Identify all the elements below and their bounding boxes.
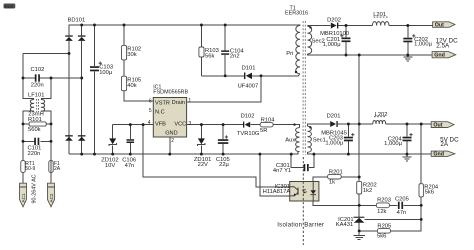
- svg-text:Gnd: Gnd: [433, 152, 444, 158]
- svg-text:90-264V AC: 90-264V AC: [31, 174, 37, 203]
- svg-text:C102: C102: [31, 67, 45, 73]
- svg-text:56k: 56k: [205, 53, 214, 59]
- svg-text:R104: R104: [261, 117, 276, 123]
- svg-text:22µ: 22µ: [219, 162, 229, 168]
- svg-text:C205: C205: [395, 196, 409, 202]
- svg-text:VFB: VFB: [155, 121, 166, 127]
- svg-text:1,000µ: 1,000µ: [414, 41, 433, 47]
- svg-text:5: 5: [149, 108, 152, 114]
- svg-text:Isolation Barrier: Isolation Barrier: [277, 223, 324, 229]
- svg-text:R101: R101: [28, 117, 42, 123]
- svg-text:D201: D201: [327, 114, 341, 120]
- svg-text:KA431: KA431: [336, 222, 353, 228]
- svg-text:Gnd: Gnd: [434, 53, 445, 59]
- svg-text:47n: 47n: [397, 210, 407, 216]
- svg-text:4: 4: [148, 120, 151, 126]
- svg-text:VSTR: VSTR: [155, 101, 170, 107]
- svg-text:BD101: BD101: [68, 18, 86, 24]
- svg-text:TVR10G: TVR10G: [237, 131, 260, 137]
- svg-text:6: 6: [149, 99, 152, 105]
- svg-text:L202: L202: [375, 112, 388, 118]
- svg-text:Sec1: Sec1: [313, 138, 326, 144]
- svg-text:EER3016: EER3016: [285, 10, 308, 16]
- svg-text:Aux: Aux: [285, 138, 295, 144]
- svg-text:2: 2: [171, 138, 174, 144]
- svg-text:N.C: N.C: [155, 109, 165, 115]
- svg-text:2n2: 2n2: [230, 54, 240, 60]
- svg-text:GND: GND: [165, 130, 177, 136]
- svg-text:100µ: 100µ: [99, 70, 113, 76]
- svg-text:1: 1: [188, 98, 191, 104]
- svg-text:D101: D101: [242, 66, 256, 72]
- svg-text:2A: 2A: [54, 166, 61, 172]
- svg-text:40k: 40k: [127, 83, 136, 89]
- svg-text:D202: D202: [327, 18, 341, 24]
- svg-text:H11A817A: H11A817A: [263, 189, 291, 195]
- svg-text:5k6: 5k6: [377, 234, 386, 240]
- svg-text:AC2: AC2: [49, 193, 54, 202]
- svg-text:Pri: Pri: [286, 51, 293, 57]
- svg-text:50-9: 50-9: [25, 166, 35, 172]
- svg-text:L201: L201: [373, 12, 386, 18]
- svg-text:VCC: VCC: [174, 122, 186, 128]
- svg-text:1,000µ: 1,000µ: [323, 42, 342, 48]
- svg-text:3: 3: [188, 121, 191, 127]
- svg-text:UF4007: UF4007: [238, 84, 259, 90]
- svg-text:30k: 30k: [127, 52, 136, 58]
- svg-text:560k: 560k: [28, 127, 41, 133]
- svg-text:220n: 220n: [28, 151, 41, 157]
- svg-text:12k: 12k: [377, 209, 386, 215]
- svg-text:R205: R205: [377, 223, 391, 229]
- svg-text:5R: 5R: [260, 128, 267, 134]
- svg-text:D102: D102: [241, 114, 255, 120]
- svg-text:R203: R203: [377, 197, 391, 203]
- svg-text:EUS: EUS: [5, 4, 14, 9]
- svg-text:Out: Out: [433, 123, 442, 129]
- svg-text:10V: 10V: [105, 163, 115, 169]
- svg-text:2.5A: 2.5A: [436, 43, 450, 50]
- svg-text:1k: 1k: [329, 180, 335, 186]
- svg-text:AC1: AC1: [21, 193, 26, 202]
- svg-text:FSDM0565RB: FSDM0565RB: [153, 90, 188, 96]
- svg-text:1,000µ: 1,000µ: [325, 140, 344, 146]
- svg-text:5k6: 5k6: [425, 189, 434, 195]
- svg-text:1k2: 1k2: [363, 188, 372, 194]
- svg-text:Out: Out: [435, 23, 444, 29]
- svg-text:Drain: Drain: [172, 100, 185, 106]
- svg-text:47n: 47n: [125, 163, 135, 169]
- svg-text:2A: 2A: [440, 141, 449, 148]
- svg-text:LF101: LF101: [28, 92, 44, 98]
- svg-text:4n7 Y1: 4n7 Y1: [273, 168, 291, 174]
- svg-text:22V: 22V: [198, 162, 208, 168]
- svg-text:220n: 220n: [31, 83, 44, 89]
- svg-text:MBR10100: MBR10100: [320, 31, 349, 37]
- svg-text:1,000µ: 1,000µ: [384, 141, 403, 147]
- svg-text:R201: R201: [329, 169, 343, 175]
